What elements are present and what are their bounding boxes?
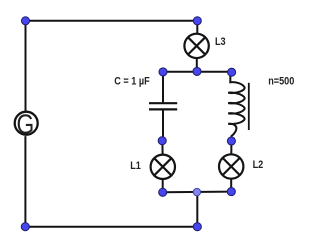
wire L1 top stub: [161, 141, 163, 155]
wire L3 top stub: [196, 21, 198, 34]
wire capacitor top lead: [162, 72, 164, 103]
svg-text:n=500: n=500: [268, 76, 294, 88]
wire top horizontal: [26, 20, 198, 22]
lamp L1: [151, 155, 175, 179]
node below L1: [159, 188, 167, 196]
svg-text:L1: L1: [130, 160, 141, 172]
svg-text:L2: L2: [253, 159, 264, 171]
node mid-row right: [228, 68, 236, 76]
wire L3 bottom stub: [196, 58, 198, 72]
wire left vertical upper (node A to generator): [25, 21, 27, 112]
inductor core bar: [248, 83, 250, 130]
wire capacitor bottom lead: [162, 109, 164, 140]
generator G1: [15, 109, 38, 140]
wire middle vertical riser: [196, 192, 198, 227]
wire left vertical lower (generator to bottom): [24, 136, 26, 227]
wire bottom horizontal: [25, 226, 197, 228]
lamp L3: [184, 34, 208, 58]
capacitor C1 plates: [149, 103, 177, 109]
node top-left: [21, 17, 29, 25]
wire middle junction row: [163, 71, 232, 73]
node bottom-left: [21, 223, 29, 231]
wire L2 top stub: [230, 141, 232, 155]
node junction center (light): [193, 188, 200, 195]
wire L2 bottom stub: [230, 178, 232, 191]
node top-right: [193, 17, 201, 25]
node below inductor: [227, 137, 235, 145]
lamp L2: [219, 154, 243, 178]
node below capacitor: [158, 137, 166, 145]
svg-text:C = 1 µF: C = 1 µF: [114, 76, 149, 88]
wire lower junction row: [163, 191, 232, 194]
node mid-row center: [193, 67, 201, 75]
node below L2: [227, 188, 235, 196]
node mid-row left: [159, 68, 167, 76]
svg-text:G: G: [17, 109, 35, 140]
node bottom-center: [193, 223, 201, 231]
inductor coil: [228, 72, 245, 141]
svg-text:L3: L3: [215, 36, 226, 48]
wire L1 bottom stub: [162, 179, 164, 193]
